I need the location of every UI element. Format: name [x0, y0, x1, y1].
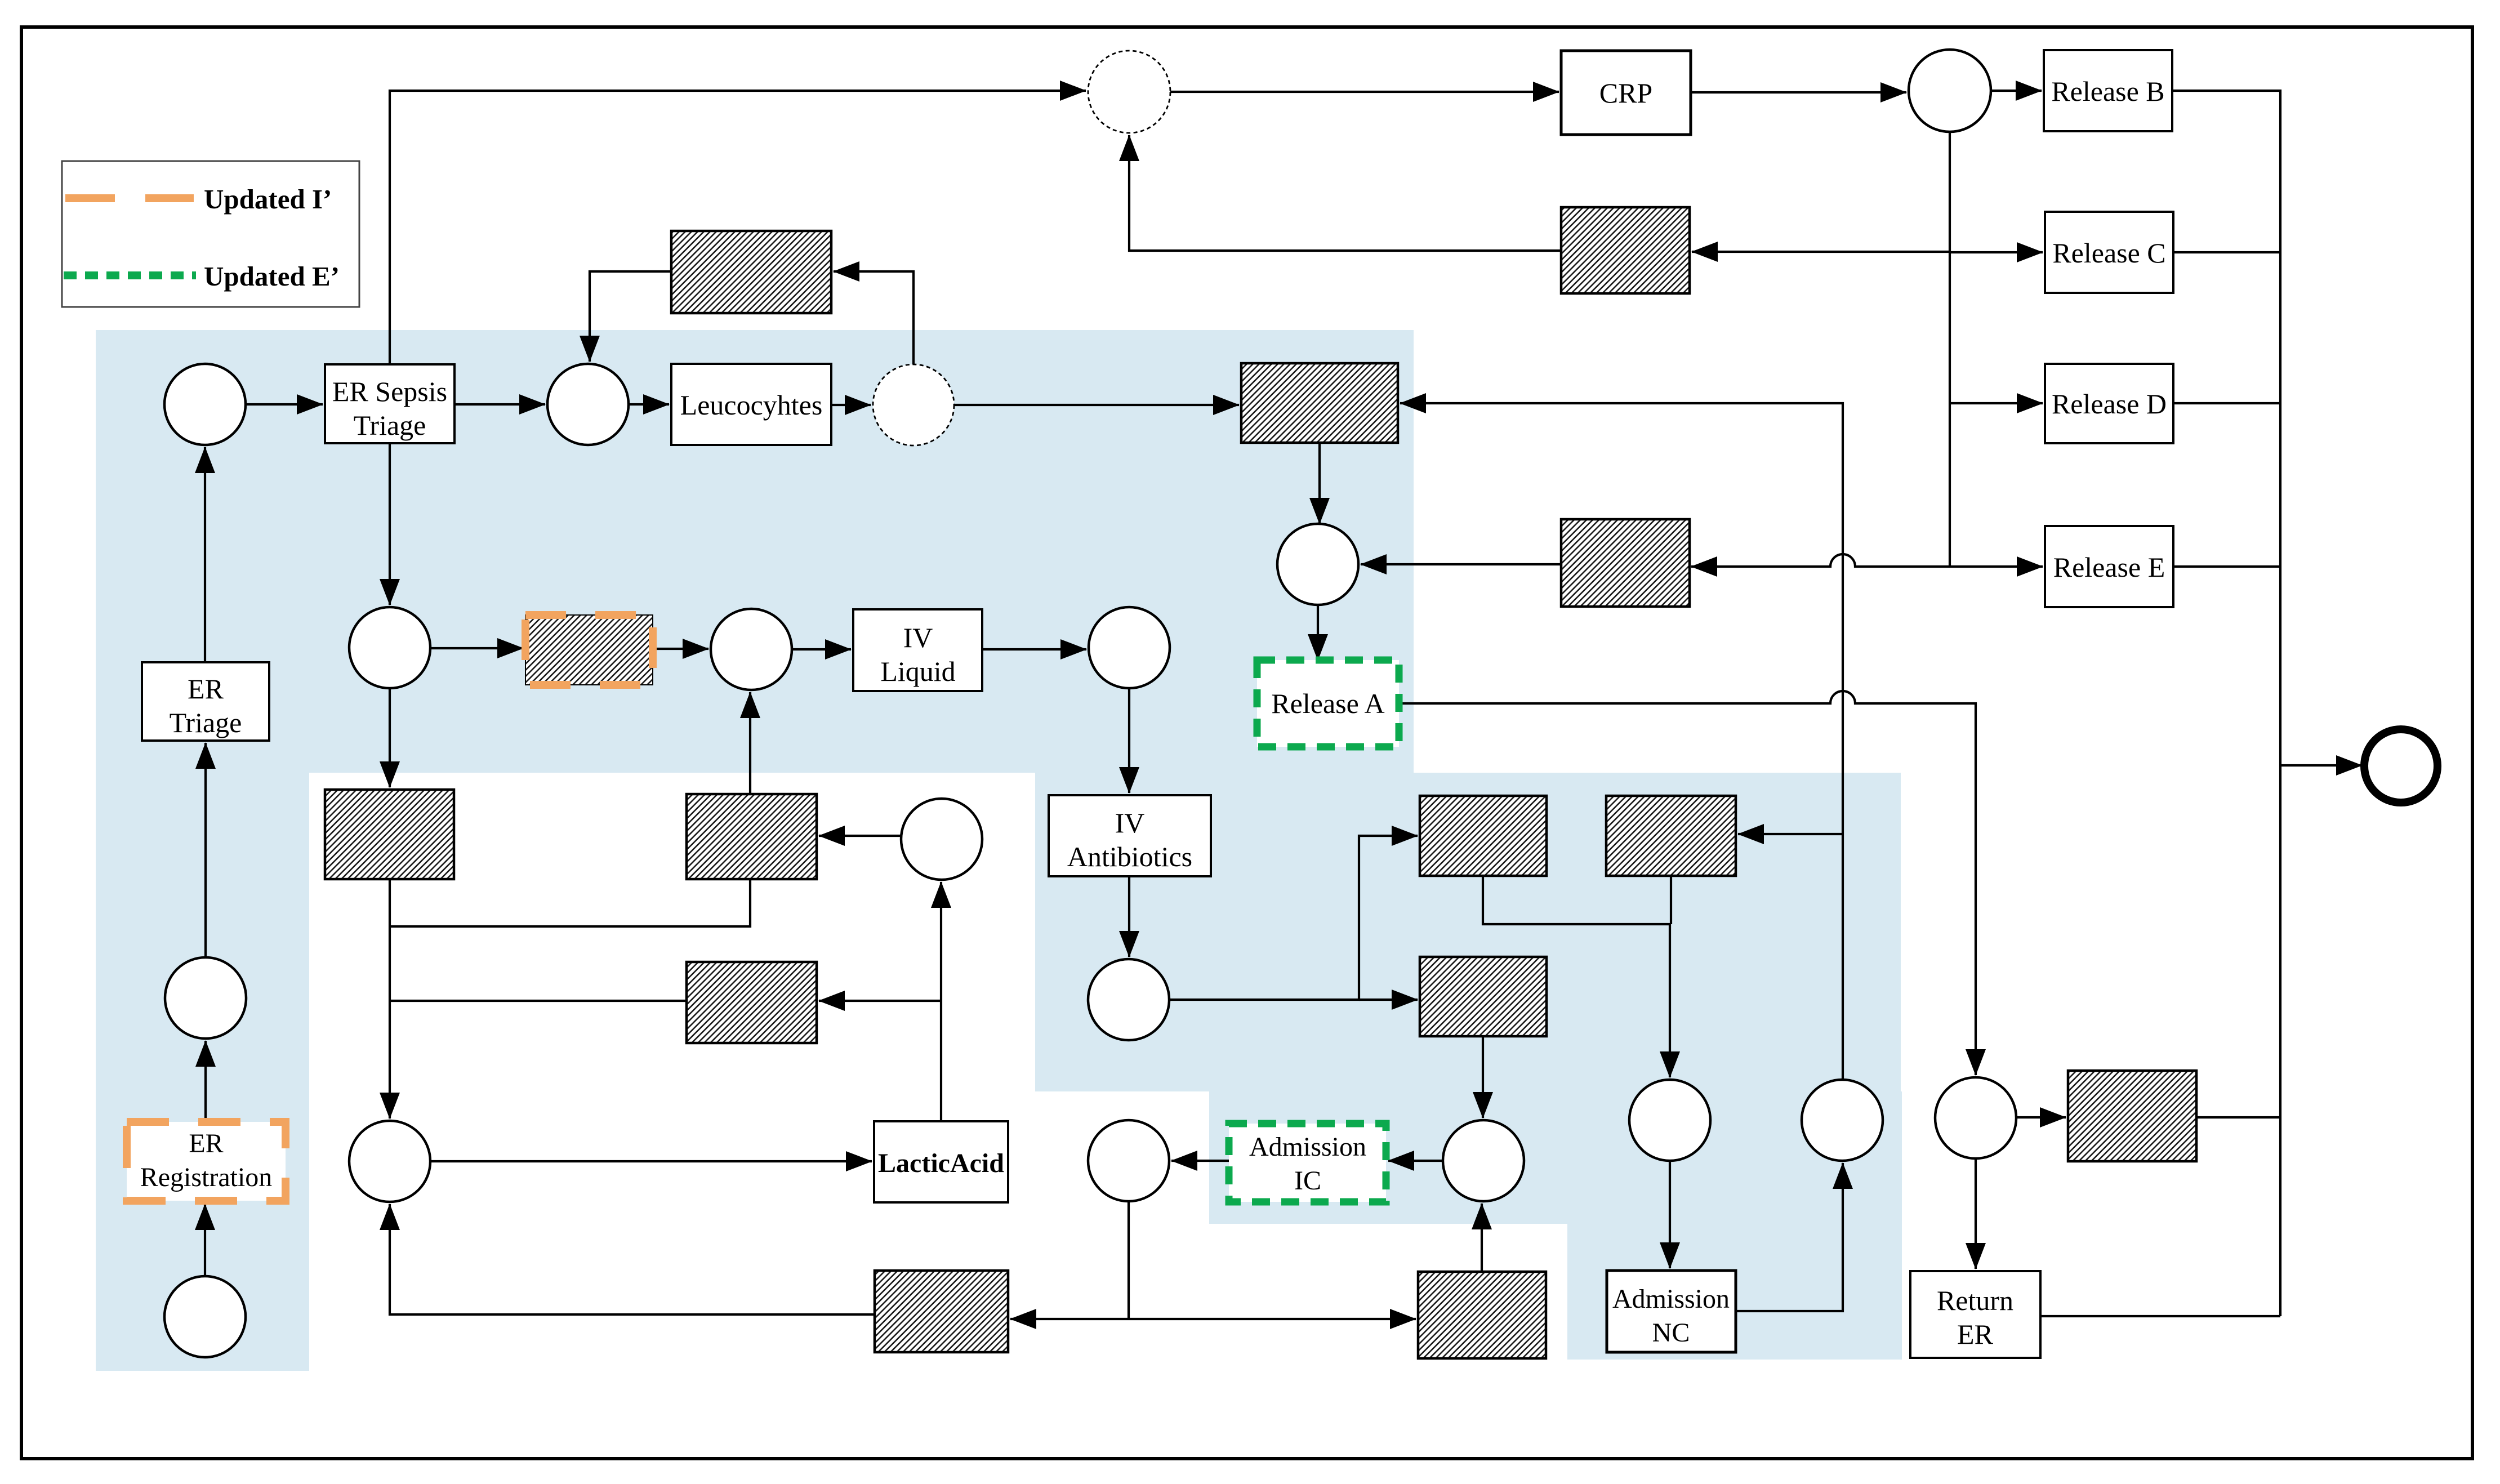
- svg-text:Updated I’: Updated I’: [204, 184, 332, 215]
- transition Release B: [2044, 50, 2172, 131]
- place after Admission NC: [1802, 1080, 1883, 1161]
- wire place to silent box: [819, 835, 901, 837]
- place after Admission IC: [1088, 1120, 1169, 1201]
- svg-text:Liquid: Liquid: [880, 656, 955, 687]
- wire place to Release A: [1317, 605, 1319, 660]
- place before Admission NC: [1629, 1080, 1710, 1161]
- wire place to LacticAcid: [430, 1160, 872, 1162]
- transition LacticAcid: [874, 1121, 1008, 1202]
- wire place to CRP: [1170, 91, 1559, 93]
- svg-text:IV: IV: [903, 622, 933, 653]
- wire merge down to place: [1669, 924, 1671, 1077]
- transition ER Triage: [142, 662, 269, 741]
- silent transition right of IV antibiotics lower: [1420, 957, 1547, 1036]
- wire place to ER Sepsis Triage: [246, 403, 323, 405]
- svg-text:Registration: Registration: [140, 1162, 273, 1192]
- silent transition above admission NC: [1606, 796, 1736, 876]
- wire silent box up to place: [1481, 1204, 1483, 1272]
- wire place to silent box lower: [1359, 999, 1418, 1001]
- wire Leucocyhtes to place: [831, 404, 871, 406]
- place before Leucocyhtes: [547, 364, 629, 445]
- wire silent box output left: [390, 1000, 687, 1002]
- svg-text:LacticAcid: LacticAcid: [878, 1148, 1004, 1178]
- legend orange dashed sample: [65, 194, 194, 202]
- wire silent box down to place: [1482, 1036, 1484, 1118]
- place after IV Antibiotics: [1088, 959, 1169, 1040]
- wire silent box to rail: [2196, 1116, 2280, 1118]
- wire silent boxes merge to place: [1483, 876, 1670, 924]
- place before Return ER: [1935, 1077, 2016, 1158]
- transition Return ER: [1910, 1271, 2040, 1358]
- wire Release D to rail: [2173, 402, 2280, 404]
- wire silent box left up to place: [390, 1204, 875, 1314]
- wire ER Triage to place: [204, 447, 206, 662]
- svg-text:Release E: Release E: [2053, 551, 2165, 583]
- transition Admission NC: [1607, 1271, 1736, 1352]
- wire silent redo box to place: [590, 271, 671, 362]
- legend green dotted sample: [64, 271, 196, 279]
- wire place to Release B: [1991, 90, 2042, 92]
- wire rail to redo E box with hop: [1691, 554, 1950, 567]
- wire place to silent box row D: [954, 404, 1239, 406]
- svg-text:Updated E’: Updated E’: [204, 261, 340, 292]
- place before Admission IC: [1443, 1120, 1524, 1201]
- place before ER Triage: [165, 957, 246, 1039]
- silent transition before end: [2068, 1071, 2196, 1161]
- wire Release B to end rail: [2172, 91, 2280, 1316]
- wire CRP to place: [1691, 91, 1906, 93]
- wire ER Registration to place: [204, 1041, 207, 1122]
- wire silent box down to place: [1318, 443, 1321, 524]
- wire silent boxes down to place: [389, 879, 391, 1118]
- wire redo C box to CRP place: [1129, 135, 1561, 251]
- place after Leucocyhtes: [873, 364, 954, 445]
- transition Release D: [2045, 364, 2173, 443]
- svg-text:IV: IV: [1115, 807, 1145, 839]
- silent transition updated I: [525, 615, 653, 685]
- wire LacticAcid up to place: [940, 882, 942, 1121]
- silent transition CRP redo: [1561, 207, 1690, 293]
- svg-text:Antibiotics: Antibiotics: [1067, 841, 1192, 872]
- svg-text:Admission: Admission: [1249, 1132, 1366, 1162]
- silent transition left low: [325, 790, 454, 879]
- wire place to ER Triage: [204, 743, 207, 957]
- region highlight admission column: [1567, 1091, 1902, 1360]
- transition IV Antibiotics: [1049, 795, 1211, 876]
- wire split to left silent box: [1010, 1318, 1129, 1320]
- svg-text:Leucocyhtes: Leucocyhtes: [680, 389, 823, 421]
- silent transition bottom mid: [1418, 1272, 1546, 1358]
- svg-text:ER: ER: [189, 1129, 223, 1158]
- wire branch to silent box: [819, 1000, 941, 1002]
- place after IV Liquid: [1089, 607, 1170, 688]
- wire place to Admission NC: [1669, 1161, 1671, 1268]
- wire Release C to rail: [2173, 251, 2280, 253]
- wire ER Sepsis Triage down to place: [389, 443, 391, 605]
- wire IV Liquid to place: [982, 648, 1086, 650]
- wire Admission NC to place: [1736, 1163, 1843, 1311]
- wire silent box down: [1670, 876, 1672, 924]
- wire rail to redo C box: [1692, 251, 1950, 253]
- silent transition mid upper: [687, 794, 817, 879]
- place after CRP: [1909, 50, 1991, 132]
- wire Admission IC to place: [1171, 1160, 1229, 1162]
- wire Release A to place right with hop: [1399, 691, 1976, 1075]
- transition ER Sepsis Triage: [325, 364, 454, 443]
- wire place to Return ER: [1975, 1158, 1977, 1269]
- svg-text:CRP: CRP: [1599, 77, 1653, 109]
- transition Release A updated E: [1257, 660, 1399, 747]
- transition ER Registration updated I: [127, 1122, 286, 1201]
- wire place down split: [1128, 1201, 1130, 1319]
- wire Release E to rail: [2173, 565, 2280, 568]
- silent transition row E: [1561, 519, 1690, 607]
- svg-text:Return: Return: [1937, 1285, 2013, 1316]
- place start: [164, 1276, 246, 1357]
- wire updated silent box to place: [653, 648, 708, 650]
- place before Release A: [1277, 524, 1358, 605]
- place after LacticAcid: [901, 799, 982, 880]
- svg-text:Release B: Release B: [2051, 75, 2164, 107]
- svg-text:Release A: Release A: [1271, 688, 1384, 719]
- wire place down rail: [1949, 132, 1951, 567]
- place before IV Liquid: [711, 609, 792, 690]
- wire rail to Release E: [1950, 565, 2043, 568]
- wire start place to ER Registration: [204, 1204, 206, 1276]
- place below ER Sepsis Triage: [349, 607, 430, 688]
- transition Leucocyhtes: [671, 364, 831, 445]
- svg-text:Admission: Admission: [1612, 1284, 1730, 1314]
- wire place to IV Antibiotics: [1128, 688, 1130, 793]
- wire branch up to silent box: [390, 879, 750, 926]
- wire rail to Release D: [1950, 402, 2043, 404]
- wire redo E box to place: [1361, 563, 1562, 565]
- wire rail to end place: [2280, 764, 2362, 766]
- wire place up to silent redo box: [834, 271, 913, 364]
- wire IV Antibiotics to place: [1128, 876, 1130, 957]
- transition Release C: [2045, 212, 2173, 293]
- place end sink: [2364, 729, 2437, 803]
- region highlight middle band: [1035, 773, 1901, 1091]
- wire place to silent box upper: [1169, 836, 1418, 1000]
- silent transition above Leucocyhtes: [671, 231, 831, 313]
- silent transition mid lower: [687, 962, 817, 1043]
- place before CRP: [1088, 51, 1170, 133]
- svg-text:Triage: Triage: [170, 707, 242, 738]
- svg-text:Release C: Release C: [2052, 237, 2165, 269]
- wire ER Sepsis Triage to place: [454, 403, 545, 405]
- wire ER Sepsis Triage up to CRP place: [390, 91, 1086, 364]
- transition IV Liquid: [853, 609, 982, 691]
- legend box: [62, 161, 359, 307]
- svg-text:IC: IC: [1294, 1166, 1321, 1196]
- wire place to IV Liquid: [792, 648, 851, 650]
- wire silent box up to place: [749, 692, 751, 794]
- region highlight admission band: [1209, 1091, 1902, 1224]
- region highlight top band: [96, 330, 1414, 773]
- svg-text:ER: ER: [1957, 1318, 1994, 1350]
- silent transition bottom left: [875, 1271, 1008, 1352]
- transition CRP: [1561, 51, 1691, 135]
- region highlight left column: [96, 330, 309, 1371]
- wire place to Leucocyhtes: [629, 403, 669, 405]
- wire Return ER to rail: [2040, 1315, 2280, 1317]
- wire place to updated silent box: [430, 647, 523, 649]
- transition Release E: [2045, 526, 2173, 607]
- silent transition row D: [1241, 363, 1398, 443]
- wire place to Admission IC: [1388, 1160, 1443, 1162]
- svg-text:ER Sepsis: ER Sepsis: [332, 376, 447, 407]
- place before LacticAcid: [349, 1121, 430, 1202]
- wire split to right silent box: [1129, 1318, 1416, 1320]
- svg-text:Release D: Release D: [2052, 388, 2167, 420]
- wire place down to silent box: [389, 688, 391, 787]
- svg-text:NC: NC: [1652, 1318, 1690, 1348]
- wire branch to silent box row 1484: [1738, 833, 1843, 835]
- svg-text:Triage: Triage: [354, 409, 426, 441]
- silent transition right of IV antibiotics upper: [1420, 796, 1547, 876]
- transition Admission IC updated E: [1229, 1124, 1386, 1202]
- svg-text:ER: ER: [188, 673, 224, 705]
- place before ER Sepsis Triage: [164, 364, 246, 445]
- wire place to silent box right: [2016, 1116, 2066, 1118]
- wire rail to Release C: [1950, 251, 2043, 253]
- wire place up to silent box row D: [1400, 403, 1843, 1080]
